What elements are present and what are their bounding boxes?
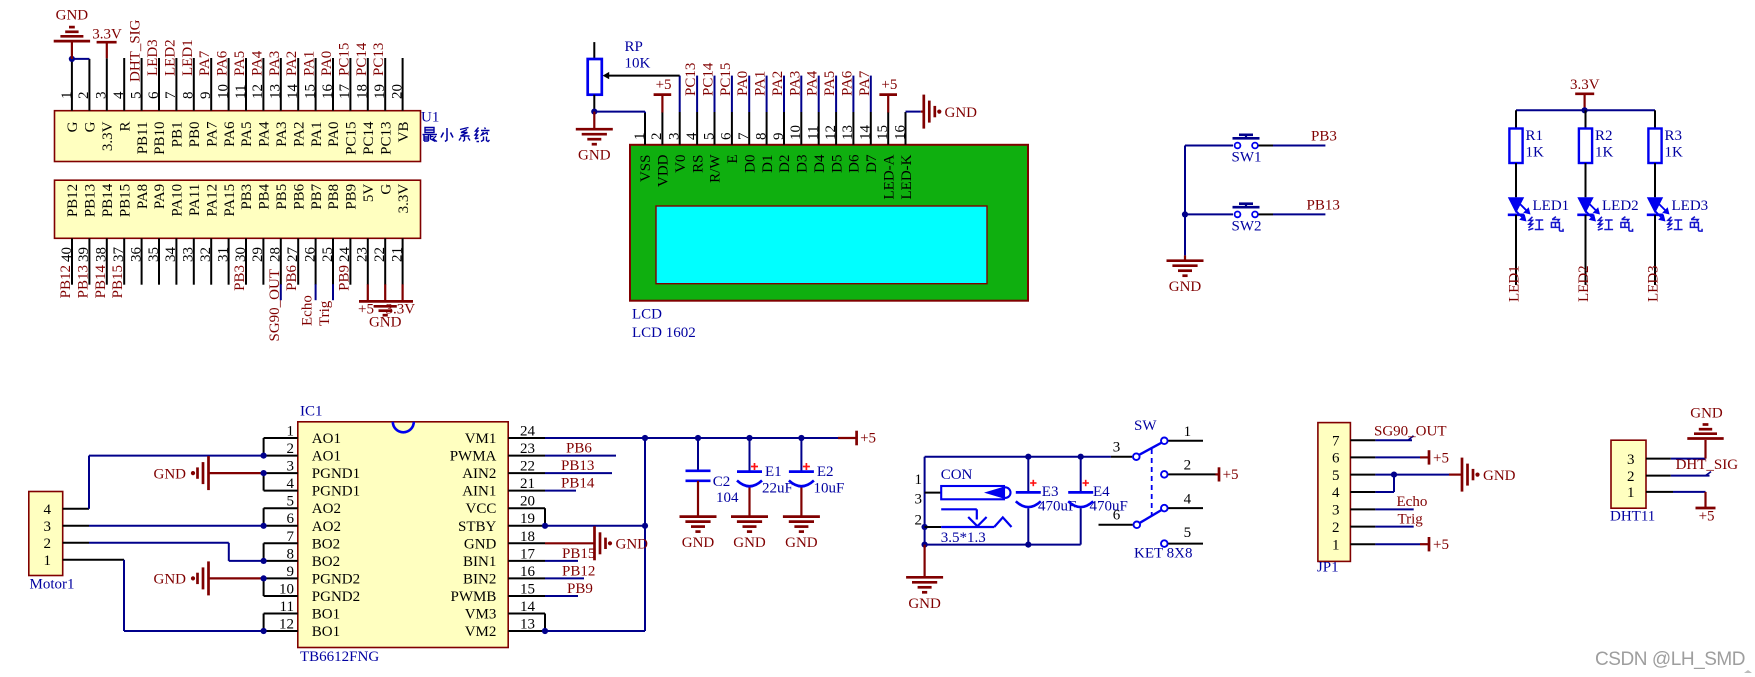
svg-text:5: 5: [287, 494, 295, 510]
svg-text:BO1: BO1: [312, 624, 340, 640]
svg-text:4: 4: [1184, 491, 1192, 507]
svg-text:Motor1: Motor1: [30, 577, 75, 593]
svg-text:Echo: Echo: [300, 295, 316, 326]
svg-text:5: 5: [1184, 525, 1192, 541]
svg-text:BO2: BO2: [312, 536, 340, 552]
svg-text:1: 1: [1627, 485, 1635, 501]
svg-text:2: 2: [915, 513, 923, 529]
svg-text:PB12: PB12: [58, 265, 74, 298]
svg-text:1: 1: [44, 553, 52, 569]
svg-text:LED2: LED2: [162, 39, 178, 76]
svg-text:D4: D4: [812, 154, 828, 173]
svg-text:40: 40: [59, 247, 75, 262]
svg-text:PA6: PA6: [839, 70, 855, 96]
svg-text:LED2: LED2: [1576, 265, 1592, 302]
svg-text:22: 22: [372, 247, 388, 262]
svg-text:PB10: PB10: [152, 122, 168, 155]
svg-text:LED1: LED1: [1507, 265, 1523, 302]
svg-text:IC1: IC1: [300, 404, 323, 420]
svg-text:3: 3: [1113, 439, 1121, 455]
svg-text:PGND1: PGND1: [312, 484, 360, 500]
svg-text:SW2: SW2: [1232, 219, 1262, 235]
svg-text:BIN2: BIN2: [463, 571, 496, 587]
svg-text:9: 9: [771, 133, 787, 141]
svg-text:21: 21: [389, 247, 405, 262]
svg-text:PA0: PA0: [735, 71, 751, 96]
svg-text:+5: +5: [1433, 450, 1449, 466]
svg-text:AIN2: AIN2: [462, 466, 496, 482]
svg-text:PB7: PB7: [309, 183, 325, 209]
svg-text:BO2: BO2: [312, 554, 340, 570]
svg-text:VM1: VM1: [465, 431, 497, 447]
svg-text:LCD: LCD: [632, 307, 662, 323]
svg-text:31: 31: [215, 247, 231, 262]
svg-text:PB12: PB12: [65, 184, 81, 217]
svg-text:26: 26: [302, 247, 318, 263]
svg-text:1: 1: [915, 472, 923, 488]
svg-text:AO2: AO2: [312, 519, 341, 535]
svg-text:SW1: SW1: [1232, 150, 1262, 166]
svg-text:PA5: PA5: [232, 51, 248, 76]
svg-text:19: 19: [520, 511, 535, 527]
svg-text:SW: SW: [1134, 418, 1157, 434]
svg-text:D7: D7: [864, 154, 880, 173]
svg-text:GND: GND: [1483, 468, 1516, 484]
svg-text:PB15: PB15: [562, 546, 595, 562]
svg-text:GND: GND: [785, 535, 818, 551]
svg-text:PB9: PB9: [344, 184, 360, 210]
svg-text:GND: GND: [733, 535, 766, 551]
svg-text:PA6: PA6: [215, 50, 231, 76]
svg-text:PA0: PA0: [319, 51, 335, 76]
svg-text:PB3: PB3: [1311, 129, 1337, 145]
svg-text:PB14: PB14: [93, 265, 109, 299]
svg-text:470uF: 470uF: [1090, 498, 1128, 514]
svg-text:5V: 5V: [361, 184, 377, 203]
svg-text:JP1: JP1: [1317, 559, 1339, 575]
svg-text:PA1: PA1: [309, 122, 325, 147]
svg-text:2: 2: [44, 536, 52, 552]
svg-text:PB0: PB0: [187, 122, 203, 148]
svg-text:U1: U1: [421, 110, 439, 126]
svg-text:+5: +5: [1699, 509, 1715, 525]
svg-text:PA3: PA3: [267, 51, 283, 76]
svg-text:G: G: [65, 121, 81, 132]
svg-text:GND: GND: [616, 537, 649, 553]
svg-text:VM3: VM3: [465, 607, 497, 623]
svg-text:10: 10: [215, 84, 231, 99]
svg-text:36: 36: [128, 247, 144, 263]
svg-text:7: 7: [287, 529, 295, 545]
svg-text:12: 12: [279, 617, 294, 633]
svg-text:PB13: PB13: [75, 265, 91, 298]
svg-text:Trig: Trig: [1398, 511, 1424, 527]
svg-text:+5: +5: [1223, 467, 1239, 483]
svg-text:PA4: PA4: [249, 50, 265, 76]
svg-text:8: 8: [287, 546, 295, 562]
svg-text:23: 23: [355, 247, 371, 262]
svg-text:3.5*1.3: 3.5*1.3: [941, 530, 986, 546]
svg-text:D3: D3: [795, 155, 811, 173]
svg-text:28: 28: [268, 247, 284, 262]
svg-text:PWMA: PWMA: [450, 449, 497, 465]
svg-text:PA3: PA3: [274, 122, 290, 147]
svg-text:PC13: PC13: [683, 63, 699, 96]
svg-text:VDD: VDD: [656, 154, 672, 187]
svg-text:STBY: STBY: [458, 519, 497, 535]
svg-text:7: 7: [163, 91, 179, 99]
svg-text:PA10: PA10: [170, 184, 186, 217]
svg-text:Trig: Trig: [317, 300, 333, 326]
svg-text:7: 7: [1332, 433, 1340, 449]
svg-text:LED3: LED3: [1646, 265, 1662, 302]
svg-text:PA0: PA0: [326, 122, 342, 147]
svg-text:PC14: PC14: [361, 121, 377, 155]
svg-text:LED-K: LED-K: [899, 154, 915, 199]
svg-text:RP: RP: [625, 39, 643, 55]
svg-text:15: 15: [302, 84, 318, 99]
svg-text:10: 10: [788, 125, 804, 140]
svg-text:PA15: PA15: [222, 184, 238, 217]
svg-text:15: 15: [875, 125, 891, 140]
svg-text:CSDN @LH_SMD: CSDN @LH_SMD: [1595, 649, 1745, 670]
svg-text:9: 9: [198, 92, 214, 100]
svg-text:3: 3: [915, 492, 923, 508]
svg-text:22uF: 22uF: [762, 480, 793, 496]
svg-text:PB13: PB13: [1307, 197, 1340, 213]
svg-text:PB14: PB14: [561, 476, 595, 492]
svg-text:PA12: PA12: [204, 184, 220, 217]
svg-text:+5: +5: [860, 431, 876, 447]
svg-text:PB13: PB13: [83, 184, 99, 217]
svg-text:1K: 1K: [1665, 145, 1684, 161]
svg-text:11: 11: [280, 599, 294, 615]
svg-text:8: 8: [181, 92, 197, 100]
svg-text:GND: GND: [56, 8, 89, 24]
svg-text:19: 19: [372, 84, 388, 99]
svg-text:5: 5: [128, 92, 144, 100]
svg-text:PB11: PB11: [135, 122, 151, 155]
svg-text:PB4: PB4: [257, 183, 273, 209]
svg-text:20: 20: [389, 84, 405, 99]
svg-text:R/W: R/W: [708, 154, 724, 183]
svg-text:13: 13: [840, 125, 856, 140]
svg-text:SG90_OUT: SG90_OUT: [1374, 424, 1447, 440]
svg-text:+5: +5: [656, 77, 672, 93]
svg-text:4: 4: [1332, 485, 1340, 501]
svg-text:PB15: PB15: [110, 265, 126, 298]
svg-text:GND: GND: [1690, 406, 1723, 422]
svg-text:37: 37: [111, 247, 127, 263]
svg-text:2: 2: [1332, 520, 1340, 536]
svg-text:PC13: PC13: [371, 43, 387, 76]
svg-text:AO2: AO2: [312, 501, 341, 517]
svg-text:D6: D6: [847, 154, 863, 173]
svg-text:5: 5: [701, 133, 717, 141]
svg-text:PA11: PA11: [187, 184, 203, 216]
svg-text:24: 24: [337, 247, 353, 263]
svg-text:PC15: PC15: [718, 63, 734, 96]
svg-text:PGND1: PGND1: [312, 466, 360, 482]
svg-text:2: 2: [1184, 458, 1192, 474]
svg-text:LED-A: LED-A: [881, 154, 897, 199]
svg-text:6: 6: [146, 91, 162, 99]
svg-text:11: 11: [806, 126, 822, 140]
svg-text:PB1: PB1: [170, 122, 186, 148]
svg-text:LED1: LED1: [180, 39, 196, 76]
svg-text:4: 4: [287, 476, 295, 492]
svg-text:DHT_SIG: DHT_SIG: [128, 19, 144, 82]
svg-text:PA2: PA2: [770, 71, 786, 96]
svg-text:30: 30: [233, 247, 249, 262]
svg-text:PA4: PA4: [257, 121, 273, 147]
svg-text:D0: D0: [742, 155, 758, 173]
svg-text:3.3V: 3.3V: [1570, 77, 1600, 93]
svg-text:E1: E1: [765, 464, 782, 480]
svg-text:1: 1: [287, 424, 295, 440]
svg-text:14: 14: [285, 84, 301, 100]
svg-text:R1: R1: [1526, 128, 1544, 144]
svg-text:V0: V0: [673, 155, 689, 173]
svg-text:PA1: PA1: [302, 51, 318, 76]
svg-text:2: 2: [1627, 469, 1635, 485]
svg-text:PC15: PC15: [344, 122, 360, 155]
svg-text:CON: CON: [941, 467, 973, 483]
svg-text:PB3: PB3: [232, 265, 248, 291]
svg-text:39: 39: [76, 247, 92, 262]
svg-text:PB6: PB6: [566, 441, 592, 457]
svg-text:D5: D5: [829, 155, 845, 173]
svg-text:11: 11: [233, 85, 249, 99]
svg-text:+5: +5: [881, 77, 897, 93]
svg-text:4: 4: [44, 502, 52, 518]
svg-text:470uF: 470uF: [1038, 498, 1076, 514]
svg-text:PC15: PC15: [336, 43, 352, 76]
svg-text:PGND2: PGND2: [312, 589, 360, 605]
svg-text:15: 15: [520, 582, 535, 598]
svg-text:27: 27: [285, 247, 301, 263]
svg-text:PB3: PB3: [239, 184, 255, 210]
svg-text:2: 2: [287, 441, 295, 457]
svg-text:16: 16: [320, 84, 336, 100]
svg-text:R2: R2: [1595, 128, 1613, 144]
svg-text:GND: GND: [369, 315, 402, 331]
svg-text:10K: 10K: [625, 55, 651, 71]
svg-text:KET 8X8: KET 8X8: [1134, 546, 1192, 562]
svg-text:14: 14: [520, 599, 536, 615]
svg-text:PB8: PB8: [326, 184, 342, 210]
svg-text:AO1: AO1: [312, 449, 341, 465]
svg-text:32: 32: [198, 247, 214, 262]
svg-text:E2: E2: [817, 464, 834, 480]
svg-text:17: 17: [337, 84, 353, 100]
svg-text:PA4: PA4: [805, 70, 821, 96]
svg-text:PA1: PA1: [753, 71, 769, 96]
svg-text:DHT11: DHT11: [1610, 509, 1655, 525]
svg-text:PB6: PB6: [284, 265, 300, 291]
svg-text:16: 16: [520, 564, 536, 580]
svg-text:PB14: PB14: [100, 183, 116, 217]
svg-text:1: 1: [1184, 424, 1192, 440]
svg-text:PA2: PA2: [284, 51, 300, 76]
svg-text:PB15: PB15: [117, 184, 133, 217]
svg-text:G: G: [378, 184, 394, 195]
svg-text:18: 18: [520, 529, 535, 545]
svg-text:PA6: PA6: [222, 121, 238, 147]
svg-text:AIN1: AIN1: [462, 484, 496, 500]
svg-text:VM2: VM2: [465, 624, 497, 640]
svg-text:1K: 1K: [1595, 145, 1614, 161]
svg-text:PA2: PA2: [291, 122, 307, 147]
svg-text:GND: GND: [154, 466, 187, 482]
svg-text:GND: GND: [464, 536, 497, 552]
svg-text:LCD 1602: LCD 1602: [632, 325, 696, 341]
svg-text:VCC: VCC: [466, 501, 497, 517]
svg-text:TB6612FNG: TB6612FNG: [300, 649, 379, 665]
svg-text:1: 1: [632, 133, 648, 141]
svg-text:8: 8: [753, 133, 769, 141]
svg-text:14: 14: [858, 125, 874, 141]
svg-text:18: 18: [355, 84, 371, 99]
svg-text:3.3V: 3.3V: [100, 121, 116, 151]
svg-text:2: 2: [649, 133, 665, 141]
svg-text:GND: GND: [154, 572, 187, 588]
svg-text:G: G: [83, 121, 99, 132]
svg-text:PC14: PC14: [354, 42, 370, 76]
svg-text:LED3: LED3: [145, 39, 161, 76]
svg-text:PA7: PA7: [204, 121, 220, 147]
svg-text:GND: GND: [945, 105, 978, 121]
svg-text:PA9: PA9: [152, 184, 168, 209]
svg-text:PB9: PB9: [336, 265, 352, 291]
svg-text:29: 29: [250, 247, 266, 262]
svg-text:PGND2: PGND2: [312, 571, 360, 587]
svg-text:3: 3: [44, 519, 52, 535]
svg-text:3: 3: [667, 133, 683, 141]
svg-text:PC14: PC14: [701, 62, 717, 96]
svg-text:23: 23: [520, 441, 535, 457]
svg-text:20: 20: [520, 494, 535, 510]
svg-text:1: 1: [1332, 537, 1340, 553]
svg-text:D1: D1: [760, 155, 776, 173]
svg-text:PB9: PB9: [567, 581, 593, 597]
svg-text:3: 3: [1332, 503, 1340, 519]
svg-text:22: 22: [520, 459, 535, 475]
svg-text:R: R: [117, 122, 133, 132]
svg-text:VB: VB: [396, 122, 412, 143]
svg-text:LED1: LED1: [1533, 198, 1570, 214]
svg-text:16: 16: [892, 125, 908, 141]
svg-text:E: E: [725, 155, 741, 164]
svg-text:PB13: PB13: [561, 458, 594, 474]
svg-text:PA8: PA8: [135, 184, 151, 209]
svg-text:104: 104: [716, 490, 739, 506]
svg-text:7: 7: [736, 132, 752, 140]
svg-text:Echo: Echo: [1397, 494, 1428, 510]
svg-text:13: 13: [520, 617, 535, 633]
svg-text:BIN1: BIN1: [463, 554, 496, 570]
svg-text:PWMB: PWMB: [451, 589, 497, 605]
svg-text:RS: RS: [690, 155, 706, 173]
svg-text:GND: GND: [682, 535, 715, 551]
svg-text:6: 6: [1113, 507, 1121, 523]
svg-text:GND: GND: [578, 148, 611, 164]
svg-text:5: 5: [1332, 468, 1340, 484]
svg-text:PA7: PA7: [197, 50, 213, 76]
svg-text:35: 35: [146, 247, 162, 262]
svg-text:AO1: AO1: [312, 431, 341, 447]
svg-text:D2: D2: [777, 155, 793, 173]
svg-text:3.3V: 3.3V: [92, 27, 122, 43]
svg-text:10uF: 10uF: [814, 480, 845, 496]
svg-text:PB5: PB5: [274, 184, 290, 210]
svg-text:GND: GND: [908, 596, 941, 612]
svg-text:34: 34: [163, 247, 179, 263]
svg-text:21: 21: [520, 476, 535, 492]
svg-text:LED2: LED2: [1602, 198, 1639, 214]
svg-text:6: 6: [287, 511, 295, 527]
svg-text:+5: +5: [1433, 537, 1449, 553]
svg-text:3: 3: [287, 459, 295, 475]
svg-text:3.3V: 3.3V: [396, 184, 412, 214]
svg-text:10: 10: [279, 582, 294, 598]
svg-text:38: 38: [94, 247, 110, 262]
svg-text:6: 6: [719, 132, 735, 140]
svg-text:PA3: PA3: [787, 71, 803, 96]
svg-text:BO1: BO1: [312, 607, 340, 623]
svg-text:PB12: PB12: [562, 563, 595, 579]
svg-text:PC13: PC13: [378, 122, 394, 155]
svg-text:4: 4: [111, 91, 127, 99]
svg-text:DHT_SIG: DHT_SIG: [1676, 457, 1739, 473]
svg-text:17: 17: [520, 546, 536, 562]
svg-text:24: 24: [520, 424, 536, 440]
svg-text:VSS: VSS: [638, 155, 654, 183]
svg-text:13: 13: [268, 84, 284, 99]
svg-text:GND: GND: [1169, 279, 1202, 295]
svg-text:6: 6: [1332, 451, 1340, 467]
svg-text:12: 12: [250, 84, 266, 99]
svg-text:R3: R3: [1665, 128, 1683, 144]
svg-text:SG90_OUT: SG90_OUT: [267, 269, 283, 342]
svg-text:PA5: PA5: [239, 122, 255, 147]
svg-text:C2: C2: [713, 474, 731, 490]
svg-text:PA5: PA5: [822, 71, 838, 96]
svg-text:LED3: LED3: [1672, 198, 1709, 214]
svg-text:PB6: PB6: [291, 183, 307, 209]
svg-text:33: 33: [181, 247, 197, 262]
svg-text:25: 25: [320, 247, 336, 262]
svg-text:9: 9: [287, 564, 295, 580]
svg-text:1K: 1K: [1526, 145, 1545, 161]
svg-text:12: 12: [823, 125, 839, 140]
svg-text:4: 4: [684, 132, 700, 140]
svg-text:3: 3: [1627, 452, 1635, 468]
svg-text:PA7: PA7: [857, 70, 873, 96]
